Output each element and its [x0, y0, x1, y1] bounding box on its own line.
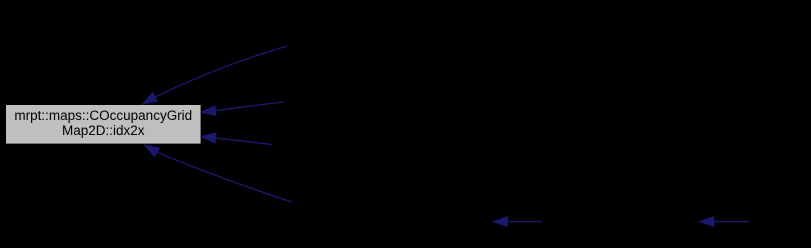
node1 box: mrpt::maps::COccupancyGridMap2D::idx2x (current node, gray fill) — [6, 105, 202, 145]
edge node7 -> node6 (horizontal right) — [699, 216, 749, 226]
edge from node4 (lower straight) — [201, 133, 272, 145]
edge from node5 (bottom curve) — [144, 145, 291, 202]
svg-text:Map2D::idx2x: Map2D::idx2x — [62, 123, 145, 138]
svg-text:mrpt::maps::COccupancyGrid: mrpt::maps::COccupancyGrid — [14, 108, 192, 123]
edge node6 -> node5 (horizontal left) — [493, 216, 542, 226]
edge from node2 (top curve) — [142, 46, 287, 104]
edge from node3 (upper straight) — [201, 102, 284, 116]
